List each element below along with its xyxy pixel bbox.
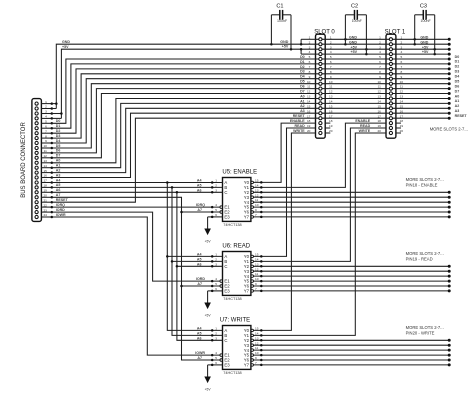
power +5V at U7 E3	[208, 364, 223, 366]
svg-text:A0: A0	[56, 159, 61, 163]
svg-text:2: 2	[309, 40, 311, 44]
svg-text:11: 11	[255, 198, 258, 202]
capacitor C1	[271, 14, 279, 16]
svg-text:A7: A7	[197, 356, 202, 360]
svg-text:19: 19	[307, 124, 311, 128]
svg-text:D0: D0	[56, 119, 61, 123]
svg-text:74HCT138: 74HCT138	[223, 371, 241, 375]
svg-text:A4: A4	[197, 252, 202, 256]
svg-text:10: 10	[255, 277, 259, 281]
svg-text:15: 15	[377, 104, 381, 108]
svg-text:A7: A7	[56, 193, 61, 197]
svg-text:+5V: +5V	[205, 388, 212, 392]
svg-text:C2: C2	[351, 3, 358, 9]
svg-text:13: 13	[329, 95, 333, 99]
svg-text:D4: D4	[455, 75, 460, 79]
wire A5 (J1 pin18 to B pins)	[52, 186, 223, 188]
wire A6 (J1 pin19 to C pins)	[52, 191, 223, 193]
svg-text:6: 6	[309, 60, 311, 64]
SLOT0 pins18-20 right stubs	[325, 122, 330, 124]
connector J1 pin stubs	[41, 103, 51, 105]
svg-text:10: 10	[377, 80, 381, 84]
svg-text:C3: C3	[420, 3, 427, 9]
svg-text:14: 14	[400, 100, 404, 104]
svg-text:17: 17	[329, 114, 333, 118]
svg-text:6: 6	[401, 60, 403, 64]
svg-text:IORQ: IORQ	[56, 203, 65, 207]
svg-text:D5: D5	[56, 144, 61, 148]
svg-text:A6: A6	[197, 262, 202, 266]
svg-text:15: 15	[329, 104, 333, 108]
svg-text:Y7: Y7	[244, 363, 250, 368]
svg-text:12: 12	[329, 90, 333, 94]
power +5V at U5 E3	[208, 216, 223, 218]
svg-text:1: 1	[309, 35, 311, 39]
svg-text:6: 6	[215, 287, 217, 291]
svg-text:13: 13	[307, 95, 311, 99]
svg-text:13: 13	[255, 188, 259, 192]
power +5V at U6 E3	[208, 290, 223, 292]
svg-text:RESET: RESET	[293, 114, 306, 118]
svg-text:A7: A7	[197, 282, 202, 286]
svg-text:IORD: IORD	[196, 277, 205, 281]
svg-text:IOWR: IOWR	[195, 351, 205, 355]
svg-text:PIN19 - READ: PIN19 - READ	[406, 257, 433, 262]
svg-text:A0: A0	[455, 94, 460, 98]
svg-text:MORE SLOTS 2-7...: MORE SLOTS 2-7...	[406, 177, 444, 182]
SLOT 0 pin circles	[319, 38, 322, 41]
svg-text:A4: A4	[197, 178, 202, 182]
svg-text:20: 20	[43, 194, 47, 198]
svg-text:3: 3	[215, 262, 217, 266]
svg-text:19: 19	[329, 124, 333, 128]
wire RESET (J1 pin21 riser + bus line)	[52, 118, 449, 202]
capacitor C3	[415, 14, 424, 16]
capacitor C2	[345, 14, 354, 16]
svg-text:7: 7	[45, 129, 47, 133]
svg-text:4: 4	[401, 50, 403, 54]
svg-text:2: 2	[45, 105, 47, 109]
svg-text:D6: D6	[300, 85, 305, 89]
svg-text:SLOT 1: SLOT 1	[385, 29, 406, 35]
svg-text:3: 3	[45, 110, 47, 114]
wire IORD (J1 pin23 to U6 E1)	[52, 212, 220, 281]
svg-text:20: 20	[329, 129, 333, 133]
svg-text:GND: GND	[349, 35, 357, 39]
svg-text:BUS BOARD CONNECTOR: BUS BOARD CONNECTOR	[21, 122, 27, 198]
wire A2 (J1 pin15 riser + bus line)	[52, 108, 449, 172]
svg-text:9: 9	[255, 356, 257, 360]
svg-text:4: 4	[379, 50, 381, 54]
svg-text:WRITE: WRITE	[293, 129, 305, 133]
svg-text:D2: D2	[56, 129, 61, 133]
svg-text:16: 16	[377, 109, 381, 113]
svg-text:12: 12	[255, 341, 259, 345]
wire D4 (J1 pin9 riser + bus line)	[52, 79, 449, 143]
decoder IC U5 74HCT138 body	[223, 178, 251, 222]
svg-text:1: 1	[45, 100, 47, 104]
SLOT 1 pin circles	[389, 38, 392, 41]
svg-text:8: 8	[309, 70, 311, 74]
node C3 taps rows1-4	[413, 38, 416, 41]
svg-text:15: 15	[400, 104, 404, 108]
svg-text:A0: A0	[300, 94, 305, 98]
wire GND tie at SLOT 0 (pin1-pin2)	[300, 39, 302, 44]
svg-text:D2: D2	[300, 65, 305, 69]
connector SLOT 1 body	[386, 34, 396, 138]
svg-text:22: 22	[43, 203, 47, 207]
svg-text:18: 18	[400, 119, 404, 123]
svg-text:5: 5	[401, 55, 403, 59]
svg-text:7: 7	[255, 361, 257, 365]
wire READ (U6 Y0 to SLOT0 pin19)	[254, 128, 316, 256]
svg-text:A6: A6	[56, 188, 61, 192]
svg-text:11: 11	[329, 85, 332, 89]
svg-text:10: 10	[307, 80, 311, 84]
svg-text:15: 15	[307, 104, 311, 108]
svg-text:6: 6	[379, 60, 381, 64]
svg-text:D6: D6	[56, 149, 61, 153]
svg-text:READ: READ	[295, 124, 306, 128]
svg-text:12: 12	[377, 90, 381, 94]
wire +5V rail row3 slots to MORE-SLOTS end	[316, 48, 450, 50]
svg-text:8: 8	[330, 70, 332, 74]
svg-text:READ: READ	[360, 124, 371, 128]
svg-text:D2: D2	[455, 65, 460, 69]
svg-text:A3: A3	[455, 109, 460, 113]
svg-text:9: 9	[379, 75, 381, 79]
svg-text:7: 7	[255, 213, 257, 217]
svg-text:12: 12	[255, 267, 259, 271]
svg-text:MORE SLOTS 2-7...: MORE SLOTS 2-7...	[406, 251, 444, 256]
svg-text:IORD: IORD	[56, 208, 65, 212]
decoder IC U7 74HCT138 body	[223, 326, 251, 370]
wire +5V (J1 pins 3,4 riser to top rail)	[52, 113, 62, 115]
svg-text:U5: ENABLE: U5: ENABLE	[222, 169, 257, 175]
svg-text:19: 19	[377, 124, 381, 128]
svg-text:C: C	[224, 264, 227, 269]
svg-text:12: 12	[43, 154, 47, 158]
svg-text:4: 4	[215, 351, 217, 355]
svg-text:A5: A5	[197, 257, 202, 261]
svg-text:GND: GND	[280, 40, 288, 44]
svg-text:100nF: 100nF	[277, 19, 288, 23]
wire ENABLE (U5 Y0 to SLOT0 pin18)	[254, 123, 316, 182]
svg-text:74HCT138: 74HCT138	[223, 297, 241, 301]
svg-text:4: 4	[215, 277, 217, 281]
svg-text:+5V: +5V	[62, 45, 69, 49]
svg-text:D1: D1	[455, 60, 460, 64]
svg-text:1: 1	[215, 179, 217, 183]
svg-text:14: 14	[255, 332, 259, 336]
wire A1 (J1 pin14 riser + bus line)	[52, 103, 449, 167]
svg-text:2: 2	[215, 332, 217, 336]
svg-text:13: 13	[400, 95, 404, 99]
svg-text:14: 14	[255, 184, 259, 188]
svg-text:2: 2	[215, 258, 217, 262]
svg-text:5: 5	[330, 55, 332, 59]
svg-text:16: 16	[307, 109, 311, 113]
svg-text:5: 5	[379, 55, 381, 59]
svg-text:RESET: RESET	[455, 114, 468, 118]
svg-text:A5: A5	[56, 183, 61, 187]
svg-text:15: 15	[255, 179, 259, 183]
svg-text:+5V: +5V	[282, 45, 289, 49]
svg-text:1: 1	[330, 35, 332, 39]
svg-text:15: 15	[43, 169, 47, 173]
svg-text:9: 9	[330, 75, 332, 79]
svg-text:9: 9	[401, 75, 403, 79]
connector J1 pin circles	[35, 102, 38, 105]
svg-text:14: 14	[377, 100, 381, 104]
svg-text:MORE SLOTS 2-7...: MORE SLOTS 2-7...	[430, 126, 468, 131]
svg-text:GND: GND	[420, 40, 428, 44]
SLOT1 pins18-20 right stubs	[396, 122, 401, 124]
svg-text:Y7: Y7	[244, 215, 250, 220]
svg-text:D0: D0	[300, 55, 305, 59]
svg-text:12: 12	[400, 90, 404, 94]
svg-text:10: 10	[400, 80, 404, 84]
svg-text:14: 14	[307, 100, 311, 104]
wire U7 Y2-Y7 to MORE-SLOTS ends	[254, 339, 450, 341]
svg-text:D5: D5	[300, 80, 305, 84]
wire +5V rail row4 slots to MORE-SLOTS end	[316, 53, 450, 55]
connector J1: BUS BOARD CONNECTOR body	[32, 99, 42, 222]
U6 inverting pin bubbles	[220, 280, 223, 283]
svg-text:A6: A6	[197, 188, 202, 192]
svg-text:24: 24	[43, 213, 47, 217]
svg-text:11: 11	[44, 149, 47, 153]
svg-text:C1: C1	[276, 3, 283, 9]
svg-text:GND: GND	[420, 35, 428, 39]
svg-text:100nF: 100nF	[420, 19, 431, 23]
wire D1 (J1 pin6 riser + bus line)	[52, 64, 449, 128]
wire D0 (J1 pin5 riser + bus line)	[52, 59, 449, 123]
svg-text:15: 15	[255, 327, 259, 331]
svg-text:5: 5	[215, 356, 217, 360]
svg-text:9: 9	[309, 75, 311, 79]
svg-text:E3: E3	[224, 363, 230, 368]
svg-text:18: 18	[43, 184, 47, 188]
node C1 taps on GND/+5V rails	[270, 43, 273, 46]
svg-text:1: 1	[379, 35, 381, 39]
svg-text:8: 8	[401, 70, 403, 74]
svg-text:19: 19	[400, 124, 404, 128]
svg-text:100nF: 100nF	[352, 19, 363, 23]
svg-text:A5: A5	[197, 331, 202, 335]
connector SLOT 0 body	[316, 34, 326, 138]
svg-text:13: 13	[43, 159, 47, 163]
svg-text:2: 2	[215, 184, 217, 188]
svg-text:13: 13	[255, 336, 259, 340]
svg-text:2: 2	[330, 40, 332, 44]
svg-text:A3: A3	[56, 173, 61, 177]
svg-text:10: 10	[255, 351, 259, 355]
svg-text:17: 17	[400, 114, 404, 118]
wire A7 (J1 pin20 to E2 pins)	[52, 197, 220, 360]
svg-text:12: 12	[255, 193, 259, 197]
svg-text:10: 10	[43, 144, 47, 148]
svg-text:A1: A1	[300, 99, 305, 103]
svg-text:MORE SLOTS 2-7...: MORE SLOTS 2-7...	[406, 325, 444, 330]
wire GND rail row2 slots to MORE-SLOTS end	[316, 43, 450, 45]
svg-text:6: 6	[215, 361, 217, 365]
svg-text:3: 3	[309, 45, 311, 49]
svg-text:+5V: +5V	[205, 314, 212, 318]
svg-text:WRITE: WRITE	[359, 129, 371, 133]
svg-text:6: 6	[215, 213, 217, 217]
decoder IC U6 74HCT138 body	[223, 252, 251, 296]
svg-text:C: C	[224, 338, 227, 343]
wire D6 (J1 pin11 riser + bus line)	[52, 89, 449, 153]
svg-text:A7: A7	[197, 208, 202, 212]
wire ENABLE1 (U5 Y1 to SLOT1 pin18)	[254, 123, 387, 187]
svg-text:D1: D1	[300, 60, 305, 64]
svg-text:16: 16	[329, 109, 333, 113]
svg-text:D6: D6	[455, 84, 460, 88]
svg-text:16: 16	[43, 174, 47, 178]
svg-text:A2: A2	[455, 104, 460, 108]
svg-text:2: 2	[401, 40, 403, 44]
wire READ1 (U6 Y1 to SLOT1 pin19)	[254, 128, 387, 261]
wire A4 (J1 pin17 to U5/U6/U7 pin A)	[52, 182, 223, 184]
svg-text:+5V: +5V	[422, 45, 429, 49]
svg-text:7: 7	[330, 65, 332, 69]
svg-text:ENABLE: ENABLE	[290, 119, 305, 123]
svg-text:14: 14	[329, 100, 333, 104]
svg-text:4: 4	[45, 115, 47, 119]
svg-text:+5V: +5V	[205, 240, 212, 244]
svg-text:IOWR: IOWR	[56, 213, 66, 217]
svg-text:9: 9	[255, 208, 257, 212]
svg-text:D0: D0	[455, 55, 460, 59]
connector J1 wire junction dots	[51, 102, 54, 105]
svg-text:+5V: +5V	[351, 45, 358, 49]
U5 inverting pin bubbles	[220, 206, 223, 209]
svg-text:A2: A2	[300, 104, 305, 108]
svg-text:U7: WRITE: U7: WRITE	[220, 317, 250, 323]
svg-text:12: 12	[307, 90, 311, 94]
svg-text:E3: E3	[224, 215, 230, 220]
wire A0 (J1 pin13 riser + bus line)	[52, 99, 449, 163]
svg-text:4: 4	[330, 50, 332, 54]
node C2 taps rows1-4	[344, 38, 347, 41]
svg-text:2: 2	[379, 40, 381, 44]
wire D5 (J1 pin10 riser + bus line)	[52, 84, 449, 148]
svg-text:IORQ: IORQ	[196, 203, 205, 207]
svg-text:74HCT138: 74HCT138	[223, 223, 241, 227]
svg-text:13: 13	[377, 95, 381, 99]
svg-text:3: 3	[215, 336, 217, 340]
svg-text:PIN18 - ENABLE: PIN18 - ENABLE	[406, 183, 438, 188]
svg-text:20: 20	[400, 129, 404, 133]
svg-text:D4: D4	[300, 75, 305, 79]
svg-text:A6: A6	[197, 336, 202, 340]
wire U5 Y2-Y7 to MORE-SLOTS ends	[254, 191, 450, 193]
wire A3 (J1 pin16 riser + bus line)	[52, 113, 449, 177]
svg-text:20: 20	[307, 129, 311, 133]
svg-text:A4: A4	[56, 178, 61, 182]
svg-text:15: 15	[255, 253, 259, 257]
svg-text:D3: D3	[455, 70, 460, 74]
svg-text:9: 9	[45, 139, 47, 143]
svg-text:6: 6	[45, 125, 47, 129]
svg-text:D5: D5	[455, 80, 460, 84]
svg-text:10: 10	[255, 203, 259, 207]
svg-text:5: 5	[309, 55, 311, 59]
svg-text:19: 19	[43, 189, 47, 193]
svg-text:PIN20 - WRITE: PIN20 - WRITE	[406, 331, 435, 336]
wire IORQ (J1 pin22 to U5 E1)	[52, 206, 220, 208]
svg-text:ENABLE: ENABLE	[355, 119, 370, 123]
svg-text:3: 3	[401, 45, 403, 49]
svg-text:D1: D1	[56, 124, 61, 128]
svg-text:8: 8	[379, 70, 381, 74]
svg-text:9: 9	[255, 282, 257, 286]
svg-text:7: 7	[379, 65, 381, 69]
wire D3 (J1 pin8 riser + bus line)	[52, 74, 449, 138]
svg-text:Y7: Y7	[244, 289, 250, 294]
svg-text:5: 5	[215, 282, 217, 286]
svg-text:RESET: RESET	[56, 198, 69, 202]
svg-text:11: 11	[255, 272, 258, 276]
svg-text:5: 5	[45, 120, 47, 124]
svg-text:17: 17	[377, 114, 381, 118]
svg-text:3: 3	[379, 45, 381, 49]
svg-text:11: 11	[400, 85, 403, 89]
svg-text:10: 10	[329, 80, 333, 84]
svg-text:17: 17	[307, 114, 311, 118]
wire D7 (J1 pin12 riser + bus line)	[52, 94, 449, 158]
svg-text:GND: GND	[349, 40, 357, 44]
svg-text:18: 18	[307, 119, 311, 123]
svg-text:3: 3	[330, 45, 332, 49]
svg-text:A2: A2	[56, 168, 61, 172]
svg-text:A4: A4	[197, 326, 202, 330]
wire GND rail row1 slots to MORE-SLOTS end	[316, 38, 450, 40]
svg-text:D3: D3	[300, 70, 305, 74]
svg-text:1: 1	[215, 253, 217, 257]
svg-text:A5: A5	[197, 183, 202, 187]
svg-text:7: 7	[401, 65, 403, 69]
wire GND (J1 pins 1,2 riser to top rail)	[52, 103, 57, 105]
svg-text:D7: D7	[455, 89, 460, 93]
svg-text:14: 14	[43, 164, 47, 168]
wire D2 (J1 pin7 riser + bus line)	[52, 69, 449, 133]
wire WRITE1 (U7 Y1 to SLOT1 pin20)	[254, 133, 387, 335]
svg-text:13: 13	[255, 262, 259, 266]
svg-text:21: 21	[43, 198, 47, 202]
U7 inverting pin bubbles	[220, 354, 223, 357]
svg-text:18: 18	[329, 119, 333, 123]
svg-text:A3: A3	[300, 109, 305, 113]
svg-text:7: 7	[309, 65, 311, 69]
svg-text:11: 11	[378, 85, 381, 89]
svg-text:3: 3	[215, 188, 217, 192]
svg-text:17: 17	[43, 179, 47, 183]
svg-text:16: 16	[400, 109, 404, 113]
svg-text:8: 8	[45, 134, 47, 138]
svg-text:7: 7	[255, 287, 257, 291]
svg-text:E3: E3	[224, 289, 230, 294]
svg-text:U6: READ: U6: READ	[222, 243, 250, 249]
svg-text:C: C	[224, 190, 227, 195]
wire WRITE (U7 Y0 to SLOT0 pin20)	[254, 133, 316, 330]
wire U6 Y2-Y7 to MORE-SLOTS ends	[254, 265, 450, 267]
svg-text:D3: D3	[56, 134, 61, 138]
svg-text:4: 4	[309, 50, 311, 54]
svg-text:1: 1	[215, 327, 217, 331]
